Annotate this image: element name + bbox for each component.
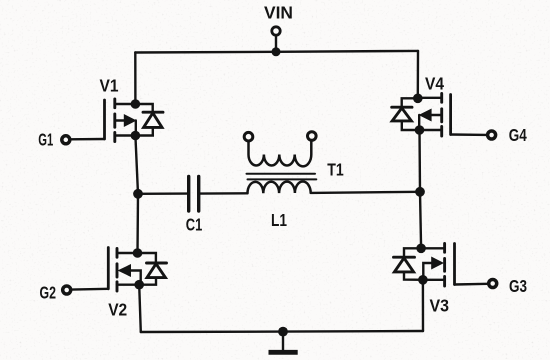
body arrow V2 [118, 264, 132, 277]
wire top rail [135, 51, 418, 53]
wire left rail drain V1 [134, 53, 136, 105]
wire right node to V3 drain [420, 192, 421, 249]
junction V1 source [131, 131, 141, 141]
wire V2 source to bottom rail [139, 285, 141, 332]
channel bar V3 [443, 244, 446, 253]
transistor V2 [108, 248, 166, 320]
wire VIN terminal to top rail [275, 36, 277, 52]
transistor V1 [100, 76, 164, 142]
gate bar V3 [453, 244, 456, 285]
junction V3 source [418, 275, 428, 285]
wire bottom rail [141, 331, 423, 332]
body arrow V4 [432, 114, 442, 116]
junction V2 source [134, 280, 144, 290]
body diode V2 [138, 253, 156, 263]
svg-text:VIN: VIN [264, 3, 293, 23]
channel bar V4 [440, 94, 443, 103]
VIN terminal [272, 27, 280, 35]
terminal G3 [489, 280, 497, 288]
body diode V1 [135, 104, 152, 112]
svg-text:G4: G4 [509, 125, 527, 145]
drain stub V4 [418, 97, 442, 99]
svg-text:T1: T1 [327, 160, 344, 180]
gate bar V1 [103, 100, 106, 139]
gate bar V2 [107, 248, 110, 289]
wire V4 source to right node [418, 130, 421, 192]
wire top rail to V4 drain [417, 51, 420, 98]
ground [269, 350, 298, 355]
wire mid node down to V2 drain [136, 194, 139, 253]
junction ground [278, 327, 288, 337]
drain stub V3 [421, 247, 445, 249]
source stub V2 [117, 284, 139, 286]
svg-text:V1: V1 [100, 76, 119, 96]
wire L1 to right node [311, 192, 420, 193]
drain stub V1 [115, 103, 136, 105]
channel bar V2 [116, 249, 119, 258]
junction V3 drain [416, 244, 426, 254]
svg-text:C1: C1 [186, 215, 203, 235]
junction V4 drain [413, 94, 423, 104]
wire G2 to V2 gate [72, 288, 109, 291]
junction mid left node [133, 189, 143, 199]
terminal T1 secondary right [308, 132, 317, 141]
junction mid right node [415, 187, 425, 197]
terminal G2 [63, 286, 71, 294]
channel bar V1 [113, 99, 116, 108]
terminal G4 [488, 131, 496, 139]
body diode V4 [402, 98, 418, 107]
source stub V4 [420, 129, 442, 131]
source stub V1 [115, 134, 136, 136]
wire ground stub [282, 332, 284, 351]
junction V4 source [415, 125, 425, 135]
transformer T1 secondary winding [249, 142, 312, 167]
svg-text:G3: G3 [509, 276, 527, 296]
body diode V3 [404, 248, 421, 257]
svg-text:G1: G1 [38, 130, 53, 150]
body arrow V3 [431, 257, 444, 270]
wire V1 source to mid node [135, 136, 138, 194]
capacitor C1 [189, 177, 199, 212]
terminal T1 secondary left [244, 132, 253, 141]
body arrow V1 [115, 119, 125, 121]
wire G3 to V3 gate [455, 283, 488, 286]
wire G4 to V4 gate [451, 133, 487, 136]
drain stub V2 [117, 252, 138, 254]
wire mid node to C1 [138, 192, 187, 195]
junction V2 drain [133, 248, 143, 258]
svg-text:G2: G2 [40, 283, 57, 303]
terminal G1 [62, 136, 70, 144]
gate bar V4 [449, 95, 452, 135]
transformer T1 core [247, 173, 316, 175]
inductor L1 [247, 182, 310, 194]
junction V1 drain [131, 99, 141, 109]
transistor V3 [394, 244, 455, 316]
transistor V4 [392, 74, 451, 137]
wire G1 to V1 gate [71, 138, 105, 141]
wire C1 to L1 [200, 192, 247, 195]
wire V3 source to bottom rail [422, 280, 425, 331]
svg-text:V2: V2 [108, 300, 127, 320]
svg-text:V4: V4 [425, 74, 444, 94]
svg-text:V3: V3 [430, 295, 450, 315]
svg-text:L1: L1 [271, 210, 287, 230]
source stub V3 [423, 279, 445, 281]
junction VIN on top rail [272, 47, 281, 56]
